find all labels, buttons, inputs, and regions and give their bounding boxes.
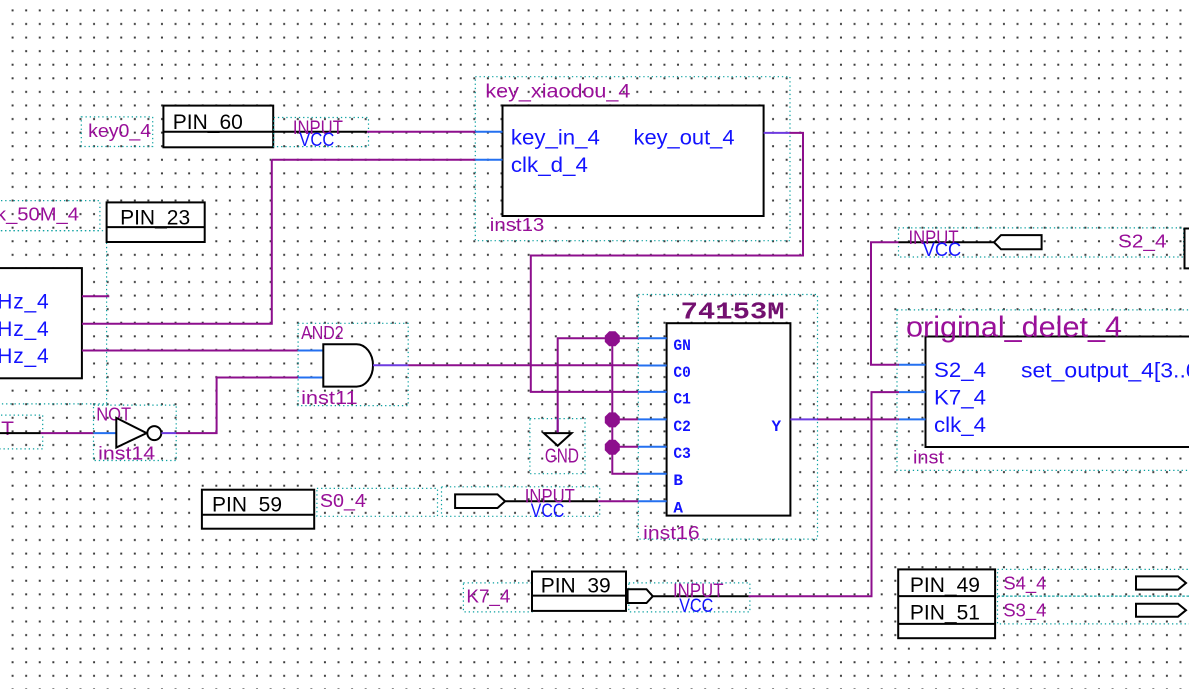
svg-text:GN: GN bbox=[673, 337, 691, 355]
wire AND out to C0 bbox=[408, 364, 638, 366]
AND shape bbox=[323, 344, 373, 386]
node k_50M_4 name label bbox=[0, 201, 100, 231]
wire stub Hz1 (dangling) bbox=[82, 295, 109, 297]
gate U-inst14: NOT bbox=[94, 404, 177, 463]
svg-text:PIN_51: PIN_51 bbox=[910, 602, 980, 625]
svg-text:key_out_4: key_out_4 bbox=[634, 127, 735, 150]
svg-text:PIN_49: PIN_49 bbox=[910, 574, 980, 597]
svg-text:UT: UT bbox=[0, 419, 14, 440]
pin stub key_in_4 bbox=[475, 131, 502, 133]
output stub bbox=[161, 432, 176, 434]
svg-text:inst: inst bbox=[913, 448, 944, 468]
wire INPUT->key_in_4 bbox=[367, 131, 476, 133]
svg-text:clk_4: clk_4 bbox=[934, 414, 986, 437]
svg-text:C2: C2 bbox=[673, 418, 691, 436]
gate U-inst11: AND2 bbox=[298, 323, 408, 408]
svg-text:k_50M_4: k_50M_4 bbox=[0, 205, 79, 226]
input port key0_4 (INPUT VCC symbol, pentagon hidden behind pin box) bbox=[273, 118, 368, 152]
svg-text:S3_4: S3_4 bbox=[1003, 600, 1046, 621]
svg-text:VCC: VCC bbox=[531, 501, 565, 522]
svg-text:C3: C3 bbox=[673, 445, 691, 463]
svg-text:inst11: inst11 bbox=[301, 388, 358, 408]
input stubs bbox=[899, 364, 926, 366]
input port S0_4 (INPUT VCC symbol) bbox=[442, 487, 600, 522]
wire junction to C3 bbox=[612, 446, 638, 448]
svg-text:S0_4: S0_4 bbox=[320, 491, 366, 512]
svg-text:PIN_39: PIN_39 bbox=[541, 575, 611, 598]
wire key_out_4 to C1 bbox=[531, 133, 803, 392]
svg-text:inst14: inst14 bbox=[98, 443, 155, 463]
bracket cut-off symbol top right bbox=[1185, 229, 1189, 269]
svg-text:set_output_4[3..0]: set_output_4[3..0] bbox=[1021, 360, 1189, 383]
pentagon S3_4 (cut at right edge) bbox=[1136, 604, 1186, 617]
wire column through junctions to B bbox=[612, 338, 638, 473]
selection box of left block bbox=[0, 231, 107, 404]
wire Hz3 to AND input1 bbox=[82, 350, 298, 352]
input stubs bbox=[298, 350, 323, 352]
svg-text:AND2: AND2 bbox=[301, 323, 344, 343]
svg-text:Hz_4: Hz_4 bbox=[0, 291, 50, 314]
S3_4 label + selection bbox=[998, 596, 1189, 624]
input port S2_4 (INPUT VCC symbol, points left) bbox=[899, 228, 1184, 261]
svg-text:NOT: NOT bbox=[96, 404, 131, 424]
pin stub key_out_4 bbox=[764, 132, 790, 134]
svg-text:PIN_23: PIN_23 bbox=[120, 207, 190, 230]
svg-text:C0: C0 bbox=[673, 364, 691, 382]
wire to A bbox=[598, 500, 638, 502]
svg-text:S2_4: S2_4 bbox=[1118, 232, 1167, 253]
svg-text:PIN_59: PIN_59 bbox=[212, 494, 282, 517]
svg-text:GND: GND bbox=[545, 446, 579, 468]
svg-text:S4_4: S4_4 bbox=[1003, 574, 1046, 595]
output stub bbox=[373, 364, 408, 366]
svg-text:A: A bbox=[673, 500, 683, 518]
component inst: original_delet_4 block bbox=[897, 310, 1189, 471]
S4_4 label + selection bbox=[998, 569, 1189, 596]
component inst16: 74153M multiplexer bbox=[638, 295, 817, 544]
svg-text:VCC: VCC bbox=[679, 596, 713, 617]
svg-text:K7_4: K7_4 bbox=[934, 386, 986, 409]
input stub bbox=[94, 432, 116, 434]
wire NOT out to AND input2 bbox=[176, 378, 298, 434]
svg-text:VCC: VCC bbox=[923, 240, 962, 261]
svg-text:C1: C1 bbox=[673, 391, 691, 409]
S0_4 name label bbox=[317, 488, 438, 516]
block body left divider bbox=[0, 268, 82, 378]
pentagon S4_4 (cut at right edge) bbox=[1136, 576, 1186, 589]
svg-text:PIN_60: PIN_60 bbox=[173, 111, 243, 134]
pin assignment PIN_60 bbox=[163, 106, 273, 148]
lead bbox=[557, 420, 559, 433]
svg-text:inst13: inst13 bbox=[490, 215, 545, 235]
wire to NOT bbox=[41, 432, 95, 434]
junction dot C3 bbox=[605, 440, 620, 455]
svg-text:Hz_4: Hz_4 bbox=[0, 318, 50, 341]
input stubs bbox=[638, 337, 666, 339]
bubble bbox=[147, 426, 161, 440]
svg-text:key0_4: key0_4 bbox=[88, 121, 151, 142]
junction dot GN bbox=[605, 331, 620, 346]
wire column to clk_d_4 bbox=[272, 159, 476, 161]
svg-text:key_xiaodou_4: key_xiaodou_4 bbox=[485, 82, 630, 103]
input port (cut at left edge) bbox=[0, 415, 43, 449]
triangle bbox=[116, 418, 146, 448]
lead bbox=[273, 131, 367, 133]
wire GND up to GN row bbox=[558, 338, 639, 432]
pin assignments PIN_49 / PIN_51 bbox=[898, 569, 995, 638]
pin assignment PIN_23 bbox=[107, 202, 205, 242]
junction dot C2 bbox=[605, 412, 620, 427]
pin assignment PIN_39 bbox=[532, 572, 626, 611]
svg-text:original_delet_4: original_delet_4 bbox=[906, 311, 1122, 343]
wire Y to clk_4 bbox=[818, 418, 900, 420]
svg-text:K7_4: K7_4 bbox=[466, 586, 510, 607]
triangle bbox=[544, 433, 572, 446]
wire S2 INPUT down to S2_4 pin bbox=[871, 242, 899, 365]
svg-text:clk_d_4: clk_d_4 bbox=[511, 154, 588, 177]
pin assignment PIN_59 bbox=[202, 490, 314, 529]
svg-text:inst16: inst16 bbox=[643, 523, 700, 543]
svg-text:Hz_4: Hz_4 bbox=[0, 345, 50, 368]
pin stub clk_d_4 bbox=[475, 159, 502, 161]
input port K7_4 (INPUT VCC symbol) bbox=[628, 581, 750, 617]
svg-text:key_in_4: key_in_4 bbox=[511, 126, 600, 149]
node key0_4 name label bbox=[81, 117, 152, 147]
output stub Y bbox=[790, 418, 817, 420]
component inst13: key_xiaodou_4 block bbox=[475, 77, 790, 241]
svg-text:B: B bbox=[673, 472, 683, 490]
svg-text:S2_4: S2_4 bbox=[934, 359, 986, 382]
node K7_4 name label bbox=[463, 583, 532, 612]
svg-text:VCC: VCC bbox=[299, 130, 334, 151]
wire Hz2 to column bbox=[82, 160, 272, 324]
ground symbol GND bbox=[530, 419, 585, 474]
wire K7 INPUT up to K7_4 pin bbox=[749, 392, 899, 596]
wire junction to C2 bbox=[612, 418, 638, 420]
svg-text:Y: Y bbox=[772, 418, 782, 436]
